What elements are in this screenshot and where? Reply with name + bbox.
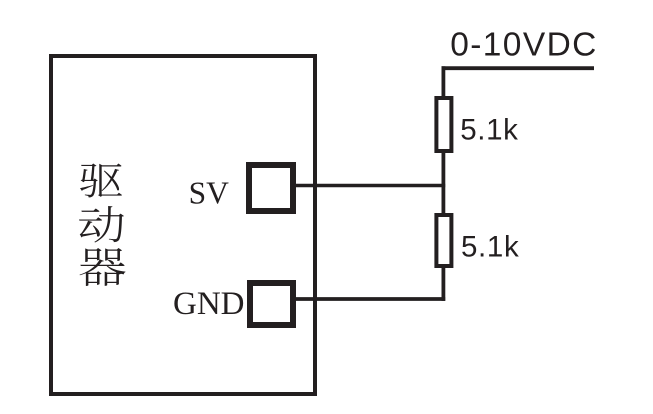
svg-text:GND: GND — [173, 286, 245, 322]
label 驱 (driver box text line 1) — [80, 164, 122, 198]
wire 0-10VDC rail (horizontal) — [442, 66, 595, 70]
resistor R1 body — [436, 98, 451, 151]
wire R2 down to node B — [441, 265, 445, 301]
terminal pad GND (square) — [250, 283, 293, 325]
wire rail down to resistor R1 — [441, 66, 445, 97]
svg-text:5.1k: 5.1k — [461, 231, 519, 264]
label 器 (driver box text line 3) — [79, 248, 125, 286]
svg-text:5.1k: 5.1k — [460, 114, 518, 147]
terminal pad SV (square) — [249, 165, 293, 211]
svg-text:SV: SV — [189, 176, 230, 211]
wire GND pad to node B — [296, 297, 445, 301]
wire SV pad to node A — [296, 184, 445, 188]
label 动 (driver box text line 2) — [79, 206, 124, 243]
driver box U1 (驱动器) — [51, 56, 315, 394]
wire R1 to node A to resistor R2 — [441, 151, 445, 214]
resistor R2 body — [436, 215, 451, 266]
svg-text:0-10VDC: 0-10VDC — [450, 27, 598, 64]
